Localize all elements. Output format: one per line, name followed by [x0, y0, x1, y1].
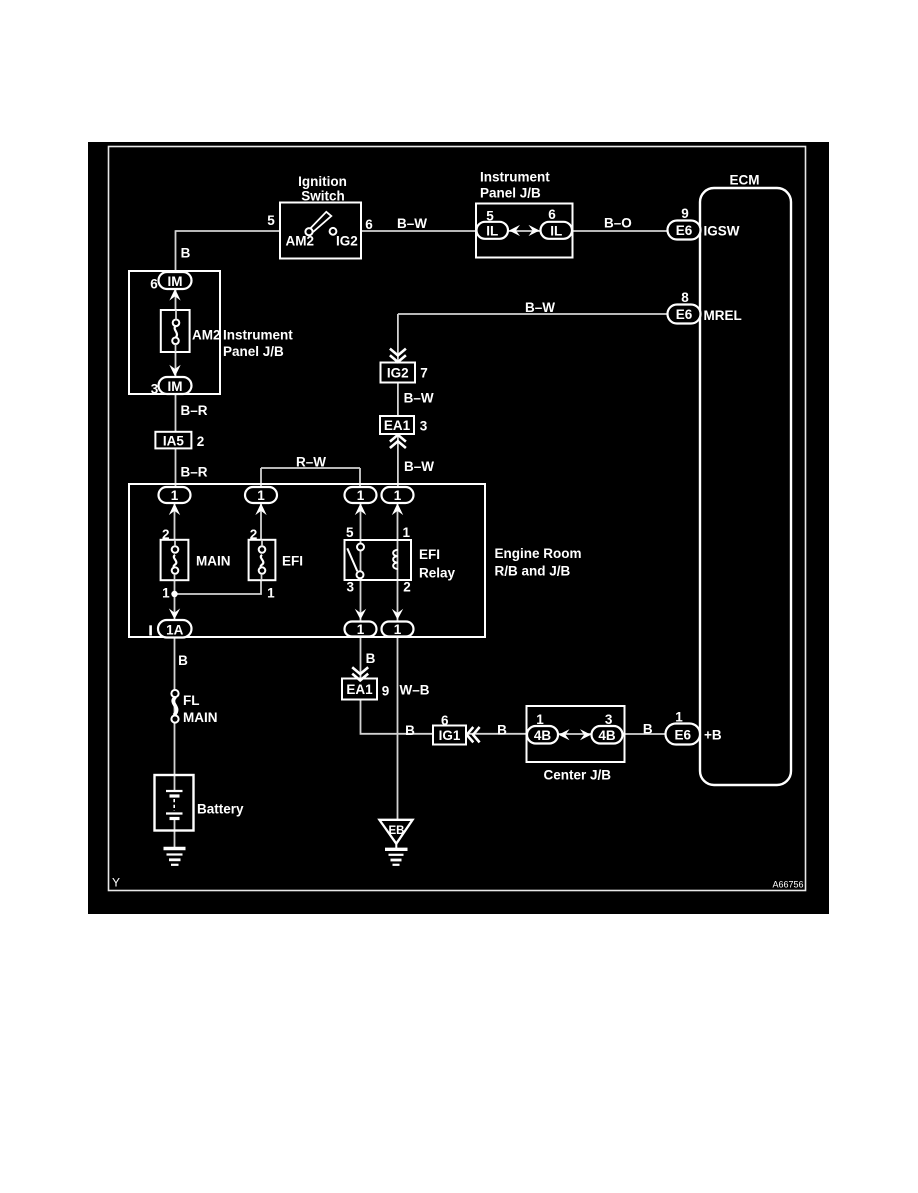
svg-text:EFI: EFI [419, 547, 440, 562]
svg-text:1: 1 [162, 586, 170, 601]
svg-text:B: B [643, 722, 653, 737]
svg-text:9: 9 [382, 684, 390, 699]
svg-text:8: 8 [681, 290, 689, 305]
svg-text:Ignition: Ignition [298, 174, 347, 189]
svg-text:B–W: B–W [404, 459, 434, 474]
svg-text:1: 1 [171, 488, 179, 503]
svg-text:3: 3 [151, 382, 159, 397]
svg-text:1: 1 [267, 586, 275, 601]
svg-text:B: B [178, 653, 188, 668]
svg-text:Center J/B: Center J/B [544, 768, 612, 783]
svg-text:7: 7 [420, 366, 428, 381]
svg-text:IGSW: IGSW [704, 224, 740, 239]
svg-text:1: 1 [536, 712, 544, 727]
svg-text:IL: IL [486, 224, 498, 239]
svg-text:5: 5 [267, 213, 275, 228]
svg-text:B–W: B–W [397, 216, 427, 231]
svg-text:1: 1 [675, 710, 683, 725]
svg-text:1: 1 [394, 622, 402, 637]
svg-text:R–W: R–W [296, 455, 326, 470]
svg-text:3: 3 [605, 712, 613, 727]
svg-text:IG2: IG2 [336, 234, 358, 249]
svg-text:ECM: ECM [730, 173, 760, 188]
svg-text:B–W: B–W [525, 300, 555, 315]
svg-text:4B: 4B [598, 728, 616, 743]
svg-text:1A: 1A [166, 623, 184, 638]
svg-text:6: 6 [548, 207, 556, 222]
svg-text:1: 1 [357, 622, 365, 637]
svg-text:MAIN: MAIN [196, 554, 231, 569]
svg-text:Y: Y [112, 876, 120, 890]
svg-text:6: 6 [365, 217, 373, 232]
svg-text:6: 6 [150, 277, 158, 292]
svg-text:EA1: EA1 [346, 682, 373, 697]
svg-text:EA1: EA1 [384, 418, 411, 433]
svg-text:Panel J/B: Panel J/B [223, 344, 284, 359]
svg-text:3: 3 [346, 580, 354, 595]
svg-text:FL: FL [183, 693, 200, 708]
svg-text:EFI: EFI [282, 554, 303, 569]
svg-text:Engine Room: Engine Room [495, 546, 582, 561]
svg-text:1: 1 [402, 525, 410, 540]
svg-text:IG2: IG2 [387, 366, 409, 381]
svg-text:B–O: B–O [604, 216, 632, 231]
svg-text:2: 2 [403, 580, 411, 595]
svg-text:Instrument: Instrument [223, 328, 293, 343]
svg-text:1: 1 [357, 488, 365, 503]
svg-text:1: 1 [394, 488, 402, 503]
svg-text:2: 2 [162, 527, 170, 542]
svg-text:IM: IM [168, 274, 183, 289]
svg-text:W–B: W–B [400, 683, 430, 698]
svg-text:3: 3 [420, 419, 428, 434]
svg-text:AM2: AM2 [192, 328, 221, 343]
svg-text:Panel J/B: Panel J/B [480, 186, 541, 201]
svg-text:EB: EB [389, 825, 405, 837]
svg-text:A66756: A66756 [773, 880, 804, 890]
svg-text:E6: E6 [675, 728, 692, 743]
svg-text:Relay: Relay [419, 566, 456, 581]
svg-text:AM2: AM2 [286, 234, 315, 249]
svg-text:R/B and J/B: R/B and J/B [495, 564, 571, 579]
svg-text:MAIN: MAIN [183, 710, 218, 725]
svg-text:2: 2 [197, 434, 205, 449]
svg-text:B: B [405, 723, 415, 738]
svg-text:Battery: Battery [197, 802, 244, 817]
svg-text:5: 5 [346, 525, 354, 540]
svg-text:4B: 4B [534, 728, 552, 743]
svg-text:IA5: IA5 [163, 433, 185, 448]
svg-text:Switch: Switch [301, 189, 345, 204]
svg-text:2: 2 [250, 527, 258, 542]
svg-text:MREL: MREL [704, 308, 742, 323]
svg-text:B–W: B–W [404, 391, 434, 406]
svg-text:B–R: B–R [181, 403, 208, 418]
svg-text:Instrument: Instrument [480, 170, 550, 185]
svg-text:B–R: B–R [181, 465, 208, 480]
svg-text:IM: IM [168, 379, 183, 394]
svg-text:1: 1 [257, 488, 265, 503]
svg-text:+B: +B [704, 728, 722, 743]
svg-text:B: B [181, 246, 191, 261]
svg-text:9: 9 [681, 206, 689, 221]
svg-text:6: 6 [441, 713, 449, 728]
svg-text:B: B [497, 723, 507, 738]
svg-text:B: B [366, 651, 376, 666]
svg-text:E6: E6 [676, 307, 693, 322]
svg-text:5: 5 [486, 209, 494, 224]
svg-text:IL: IL [550, 224, 562, 239]
svg-text:IG1: IG1 [439, 728, 461, 743]
svg-text:E6: E6 [676, 223, 693, 238]
